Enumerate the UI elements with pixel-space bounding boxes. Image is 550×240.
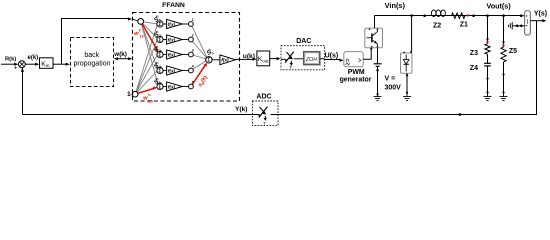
red label w25 (143, 92, 153, 104)
ADC sampler switch (252, 107, 278, 126)
svg-text:1: 1 (192, 18, 194, 22)
svg-text:+: + (14, 65, 17, 71)
svg-text:Vin(s): Vin(s) (385, 1, 406, 10)
svg-text:f(x): f(x) (168, 68, 176, 74)
FFANN dashed box (133, 13, 240, 102)
svg-text:FFANN: FFANN (162, 2, 185, 9)
hidden neuron 2 (152, 30, 193, 44)
resistor Z1 (452, 13, 465, 18)
resistor Z3 (485, 44, 490, 54)
svg-text:Σ: Σ (158, 68, 161, 74)
svg-text:Σ: Σ (207, 58, 210, 64)
arrow feedback into summing junction (21, 68, 24, 72)
wire Kout to DAC (270, 58, 278, 60)
junction dot Vin branch (423, 14, 426, 17)
hidden layer fan from bias input (135, 24, 157, 94)
svg-text:1: 1 (127, 91, 131, 98)
input node 1 (132, 19, 143, 25)
PWM generator block (340, 52, 372, 84)
IGBT switch block (365, 28, 383, 48)
svg-text:Y(k): Y(k) (235, 106, 247, 113)
svg-text:R(k): R(k) (5, 57, 16, 63)
wire R(k) input (1, 63, 16, 65)
hidden neuron 1 (152, 14, 193, 28)
svg-text:f(x): f(x) (221, 58, 229, 64)
red weight w13 connection input1 to neuron3 (141, 21, 159, 51)
output neuron S1y (205, 47, 236, 64)
load block Y(s) (520, 11, 530, 35)
ADC dashed box (252, 101, 278, 126)
svg-text:e(k): e(k) (28, 55, 39, 61)
wire u(k) FFANN output to Kout (235, 58, 253, 60)
svg-text:U(s): U(s) (325, 52, 339, 59)
svg-text:V =: V = (385, 75, 396, 82)
red label w13 (134, 28, 144, 39)
gain block Kin (40, 58, 54, 69)
svg-text:ZOH: ZOH (305, 57, 317, 63)
ground Z5 (500, 93, 508, 101)
wire load lower terminal (512, 25, 524, 27)
ground battery (374, 94, 382, 100)
wire feedback down (278, 21, 537, 115)
wire top rail Vin to load (375, 15, 522, 17)
svg-text:2: 2 (192, 33, 194, 37)
wire branch up to FFANN input (62, 19, 129, 65)
bias input 1 (127, 91, 138, 98)
wire Z5 branch (503, 16, 505, 47)
ground sideways (509, 22, 513, 30)
svg-text:back: back (84, 52, 99, 59)
wire diode branch (411, 16, 413, 54)
gain block Kout (257, 51, 270, 66)
svg-text:w(k): w(k) (113, 51, 127, 58)
red connection neuron5 output to output neuron (191, 63, 207, 87)
red label s5(k) (197, 75, 209, 89)
wire Y(k) feedback to summing junction (23, 68, 253, 115)
wire IGBT collector to Vin rail (374, 16, 376, 29)
svg-text:Σ: Σ (158, 37, 161, 43)
wire e(k) (25, 63, 35, 65)
battery V source (374, 64, 382, 95)
svg-text:in: in (46, 63, 50, 69)
red weight w25 connection bias to neuron5 (135, 87, 157, 95)
svg-text:Z3: Z3 (470, 50, 478, 57)
wire Kin output to junction (53, 63, 66, 65)
svg-text:13: 13 (139, 34, 144, 39)
svg-text:u(k): u(k) (243, 53, 255, 60)
svg-text:f(x): f(x) (168, 84, 176, 90)
svg-text:Σ: Σ (158, 52, 161, 58)
ZOH block (294, 52, 320, 65)
svg-text:f(x): f(x) (168, 22, 176, 28)
hidden neuron 4 (152, 61, 193, 75)
back propagation block (71, 38, 114, 87)
svg-text:T: T (263, 121, 266, 126)
svg-text:4: 4 (192, 64, 194, 68)
svg-text:3: 3 (192, 48, 194, 52)
wire PWM to IGBT gate (363, 49, 371, 60)
svg-text:f(x): f(x) (168, 37, 176, 43)
wire w(k) double arrow (117, 58, 130, 60)
wire Z3/Z4 branch (487, 16, 489, 44)
svg-text:Σ: Σ (158, 84, 161, 90)
wire diode to ground (406, 73, 408, 93)
capacitor Z4 (484, 54, 491, 92)
DAC sampler switch (281, 52, 294, 70)
svg-text:Vout(s): Vout(s) (486, 2, 511, 11)
svg-text:Z4: Z4 (470, 65, 478, 72)
red node dot (467, 14, 469, 16)
svg-text:Z5: Z5 (509, 48, 517, 55)
junction dot (472, 14, 475, 17)
DAC dashed box (281, 46, 325, 70)
svg-text:Z1: Z1 (460, 21, 468, 28)
wire Y(s) output (530, 20, 543, 22)
ground diode (403, 93, 411, 101)
wire IGBT emitter down to battery (377, 48, 379, 64)
svg-text:Z2: Z2 (433, 22, 441, 29)
resistor Z5 (501, 47, 506, 62)
svg-text:DAC: DAC (296, 38, 311, 45)
svg-text:5: 5 (192, 80, 194, 84)
svg-text:f(x): f(x) (168, 52, 176, 58)
svg-text:300V: 300V (385, 84, 402, 91)
svg-text:PWM: PWM (348, 69, 365, 76)
svg-text:generator: generator (340, 77, 372, 84)
svg-text:Σ: Σ (158, 22, 161, 28)
svg-text:out: out (262, 58, 269, 63)
arrow on feedback wire (457, 113, 461, 116)
inductor Z2 (431, 10, 445, 17)
diode D1 (401, 51, 412, 73)
svg-text:propogation: propogation (74, 61, 111, 68)
svg-text:25: 25 (148, 98, 153, 103)
svg-text:Y(s): Y(s) (534, 10, 547, 17)
hidden layer fan from input 1 (141, 21, 159, 86)
output layer fan (191, 24, 207, 71)
ground Z4 (484, 93, 492, 101)
summing junction (14, 61, 25, 72)
svg-text:ADC: ADC (256, 93, 271, 100)
hidden neuron 3 (152, 45, 193, 59)
svg-text:T: T (289, 65, 292, 70)
wire DAC to PWM, node U(s) (320, 58, 341, 61)
hidden neuron 5 (152, 77, 193, 91)
